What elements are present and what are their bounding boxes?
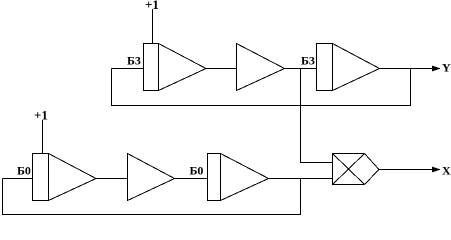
arrowhead Y output [432, 66, 441, 72]
wire (top feedback: left vertical up to U1 input) [111, 69, 113, 107]
wire (bottom feedback: vertical tap down at x=300) [300, 179, 302, 216]
wire (Y tap horizontal into multiplier top input) [301, 162, 333, 164]
svg-text:Y: Y [442, 61, 451, 75]
wire (U3 output to Y arrow) [380, 68, 441, 70]
wire (bottom feedback: bottom horizontal run) [3, 214, 301, 216]
wire (U4 output to amplifier U5) [96, 178, 128, 180]
integrator U6 (rect part) [208, 154, 221, 201]
integrator U1 (triangle part) [159, 44, 207, 91]
wire (bottom feedback into U4 input) [3, 178, 33, 180]
arrowhead X output [432, 167, 441, 173]
integrator U6 (triangle part) [221, 154, 269, 201]
svg-text:+1: +1 [34, 108, 48, 123]
svg-text:+1: +1 [145, 0, 159, 12]
wire (top feedback: vertical tap down from Y line) [410, 69, 412, 107]
integrator U1 (rect part) [144, 44, 159, 91]
wire (bottom feedback: left vertical up to U4 input) [2, 179, 4, 216]
amplifier U2 (triangle) [237, 44, 285, 91]
svg-text:Б3: Б3 [127, 54, 141, 68]
wire (+1 stub into top integrator U1) [152, 9, 154, 44]
wire (U1 output to amplifier U2) [206, 68, 237, 70]
svg-text:Б0: Б0 [190, 164, 204, 178]
wire (top feedback: bottom horizontal run) [112, 105, 411, 107]
multiplier M1 (X diagonal 1) [333, 154, 365, 185]
amplifier U5 (triangle) [128, 154, 175, 201]
wire (U6 output into multiplier bottom input) [269, 178, 333, 180]
multiplier M1 (output tip) [365, 154, 380, 185]
integrator U4 (triangle part) [49, 154, 97, 201]
wire (multiplier output to X arrow) [379, 169, 440, 171]
wire (Y signal tap down to multiplier) [300, 69, 302, 164]
wire (U5 output to U6) [175, 178, 208, 180]
svg-text:X: X [442, 164, 451, 178]
svg-text:Б0: Б0 [17, 164, 31, 178]
multiplier M1 (box, open on right side) [333, 154, 365, 185]
integrator U3 (rect part) [317, 44, 333, 91]
integrator U3 (triangle part) [333, 44, 380, 91]
integrator U4 (rect part) [33, 154, 49, 201]
multiplier M1 (X diagonal 2) [333, 154, 365, 185]
svg-text:Б3: Б3 [301, 54, 315, 68]
wire (U2 output to U3) [285, 68, 318, 70]
wire (+1 stub into bottom integrator U4) [42, 120, 44, 154]
wire (top feedback into U1 input) [112, 68, 144, 70]
